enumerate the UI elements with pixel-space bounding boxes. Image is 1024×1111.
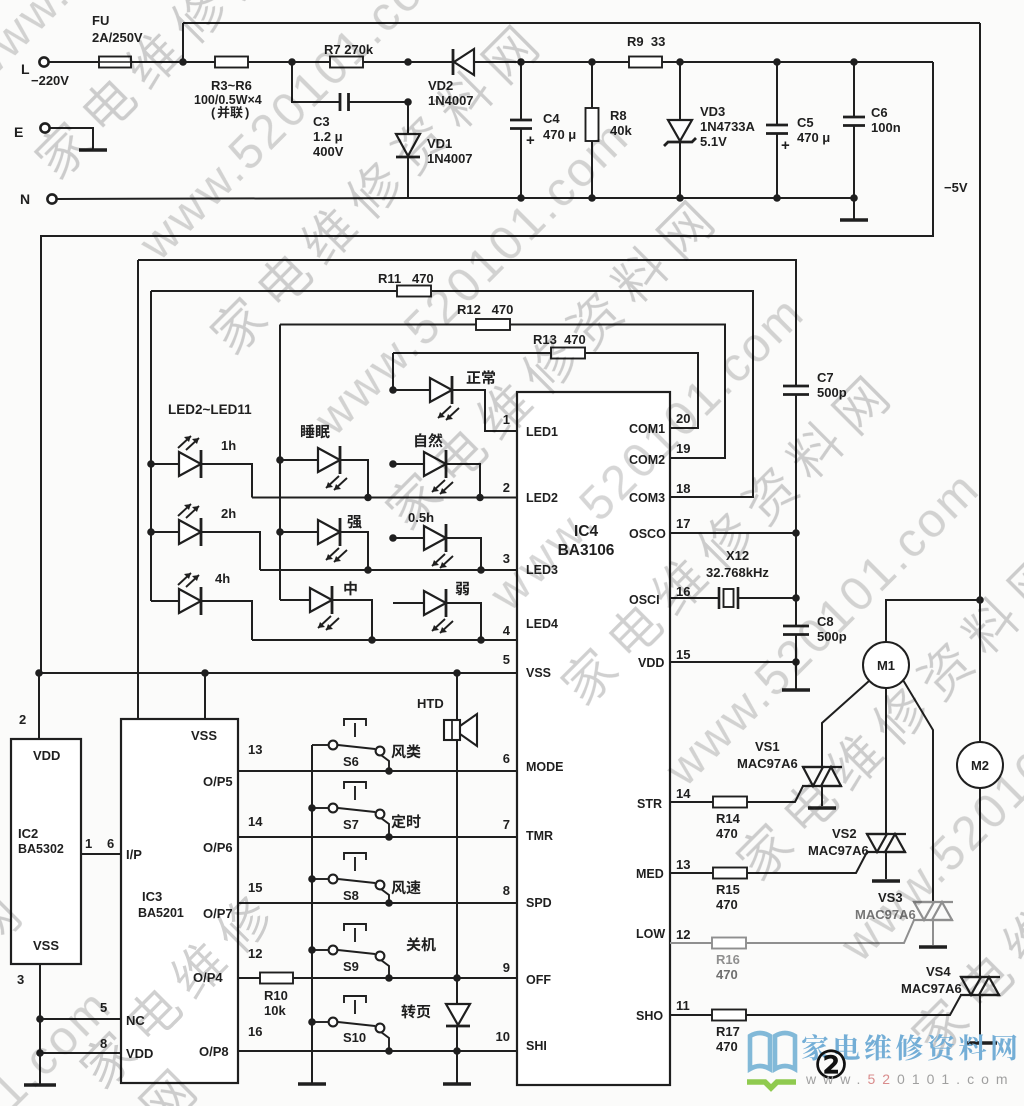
- node VSS left: [35, 669, 43, 677]
- wire 05h cathode: [446, 538, 481, 570]
- wire R7 to VD2: [363, 61, 453, 63]
- wire diode top: [456, 978, 458, 1004]
- wire LED2 row: [252, 497, 517, 499]
- label ruo: [456, 582, 469, 596]
- wire OFF row left: [238, 977, 260, 979]
- node C3-VD1: [404, 98, 412, 106]
- logo green ribbon: [747, 1082, 796, 1088]
- wire OFF row: [293, 977, 517, 979]
- wire VD3 upper: [679, 62, 681, 120]
- wire LED4 row: [252, 639, 517, 641]
- motor M2: [957, 742, 1003, 788]
- node qiang anode: [276, 528, 284, 536]
- label fenglei: [391, 744, 420, 758]
- wire OSCO-OSCI vertical: [795, 533, 797, 598]
- wire R13 left: [393, 352, 551, 354]
- wire M2 top: [979, 600, 981, 742]
- node 1h anode: [147, 460, 155, 468]
- node R8 bottom: [588, 194, 596, 202]
- node MODE: [385, 767, 393, 775]
- ground IC2: [24, 1083, 56, 1086]
- resistor R9: [629, 57, 662, 68]
- wire C3 branch: [292, 62, 340, 102]
- diode VD1 1N4007: [396, 134, 420, 157]
- wire 4h cathode: [201, 601, 252, 640]
- wire ruo cathode: [446, 603, 481, 640]
- resistor R10: [260, 973, 293, 984]
- wire switch bus: [311, 745, 313, 1083]
- wire NC line: [40, 1018, 121, 1020]
- label zhong: [344, 581, 356, 595]
- switch S10: [312, 996, 389, 1051]
- switch S9: [312, 924, 389, 978]
- wire R12 left: [280, 324, 476, 326]
- wire R12 left vert: [279, 325, 281, 601]
- wire C3 to VD1 node: [349, 101, 408, 103]
- label zhengchang: [467, 370, 495, 384]
- wire R16 to VS3 gate: [746, 920, 914, 943]
- wire FU to R3 node: [131, 61, 215, 63]
- wire R11 left vert: [150, 291, 152, 601]
- crystal X12 32.768kHz: [719, 587, 738, 609]
- wire VDD gnd stub: [795, 662, 797, 689]
- resistor R8: [586, 108, 599, 141]
- wire C5 to C6: [777, 61, 854, 63]
- resistor R15: [713, 868, 747, 879]
- wire shuimian cathode: [340, 460, 368, 498]
- label shuimian: [301, 424, 330, 438]
- wire VDD link: [670, 661, 796, 663]
- wire R17 to VS4 gate: [746, 995, 961, 1015]
- wire R8 upper: [591, 62, 593, 108]
- node LED4 a: [368, 636, 376, 644]
- LED zhong: [310, 586, 339, 630]
- ground C6: [840, 218, 868, 221]
- capacitor C5: [766, 125, 788, 134]
- node C4 top: [517, 58, 525, 66]
- terminal L: [39, 57, 48, 66]
- triac VS1 MAC97A6: [802, 767, 842, 786]
- node VD3 top: [676, 58, 684, 66]
- logo site name glyphs: [802, 1034, 1016, 1060]
- node VSS htd: [453, 669, 461, 677]
- wire C6 to -5V corner: [854, 61, 933, 63]
- label fengsu: [391, 880, 420, 894]
- wire ziran anode: [393, 463, 424, 465]
- wire OSCI-C8: [795, 598, 797, 626]
- buzzer HTD: [444, 714, 477, 746]
- wire 4h anode: [151, 600, 179, 602]
- ground switch bus: [298, 1082, 326, 1085]
- terminal VS2: [872, 879, 900, 882]
- wire LED3 row: [260, 569, 517, 571]
- node bus S8: [308, 875, 316, 883]
- wire VDD line: [40, 1052, 121, 1054]
- wire right vertical: [979, 23, 981, 600]
- LED 0.5h: [424, 524, 453, 568]
- wire VD3 lower: [679, 142, 681, 198]
- wire 1h cathode: [201, 464, 252, 498]
- wire STR stub: [670, 801, 713, 803]
- capacitor C7: [783, 386, 809, 395]
- node bus S10: [308, 1018, 316, 1026]
- switch S6: [312, 719, 389, 771]
- resistor R12: [476, 319, 510, 330]
- ground E: [79, 148, 107, 151]
- ground oscillator: [782, 688, 810, 691]
- wire R14 to VS1 gate: [747, 786, 803, 802]
- wire C7 to OSCO: [795, 395, 797, 534]
- wire MED stub: [670, 872, 713, 874]
- wire R9 to VD3: [662, 61, 680, 63]
- node R7-VD2: [404, 58, 412, 66]
- wire C4 upper: [520, 62, 522, 120]
- wire C7 frame: [138, 260, 796, 386]
- wire zhengchang cathode: [452, 390, 517, 431]
- node OSCI: [792, 594, 800, 602]
- node 05h anode: [389, 534, 397, 542]
- wire C4 to R8: [521, 61, 592, 63]
- label zhuanye: [401, 1004, 430, 1018]
- triac VS4 MAC97A6: [960, 977, 1000, 995]
- label dingshi: [391, 814, 420, 828]
- label guanji: [406, 937, 435, 951]
- terminal N: [47, 194, 56, 203]
- LED shuimian: [318, 446, 347, 490]
- wire M1 to VS1: [822, 681, 869, 767]
- node NC join: [36, 1015, 44, 1023]
- wire R15 to VS2 gate: [747, 852, 867, 873]
- svg-text:www.520101.com: www.520101.com: [805, 1071, 1015, 1087]
- LED 1h: [178, 436, 201, 478]
- node OFF htd: [453, 974, 461, 982]
- resistor R14: [713, 797, 747, 808]
- node ziran anode: [389, 460, 397, 468]
- wire zhengchang anode: [393, 389, 430, 391]
- wire frame left lower: [137, 260, 139, 719]
- node TMR: [385, 833, 393, 841]
- node zhengchang anode: [389, 386, 397, 394]
- wire C4 lower: [520, 129, 522, 199]
- wire VD1 to N rail: [407, 157, 409, 198]
- node 2h anode: [147, 528, 155, 536]
- wire top rail: [183, 22, 980, 24]
- wire E to ground: [50, 128, 93, 149]
- ground diode: [443, 1082, 471, 1085]
- wire qiang anode: [280, 531, 318, 533]
- node LED2 b: [476, 494, 484, 502]
- wire SHI row: [238, 1050, 517, 1052]
- wire VS3 bottom: [932, 920, 934, 945]
- LED ruo: [424, 589, 453, 633]
- wire R11 left: [151, 290, 397, 292]
- wire C6 gnd stub: [853, 198, 855, 219]
- wire HTD bottom: [456, 740, 458, 978]
- node VDD15: [792, 658, 800, 666]
- node LED3 a: [364, 566, 372, 574]
- wire node up to top rail: [182, 23, 184, 62]
- node fuse-R3: [179, 58, 187, 66]
- node OSCO: [792, 529, 800, 537]
- wire 2h cathode: [201, 532, 260, 570]
- wire VSS to IC3 top: [204, 673, 206, 719]
- wire R11 to COM3: [431, 291, 753, 497]
- LED qiang: [318, 518, 347, 562]
- wire VS2 bottom: [885, 852, 887, 879]
- node M branch: [976, 596, 984, 604]
- terminal E: [40, 123, 49, 132]
- wire fuse inner: [99, 61, 131, 63]
- wire node to VD1: [407, 102, 409, 134]
- motor M1: [863, 642, 909, 688]
- resistor R16: [712, 938, 746, 949]
- wire zhong anode: [280, 599, 310, 601]
- node OFF s9: [385, 974, 393, 982]
- triac VS2 MAC97A6: [866, 834, 906, 852]
- LED ziran: [424, 450, 453, 494]
- wire IC2 pin1 to IC3: [81, 853, 121, 855]
- IC U-IC3 BA5201 box: [121, 719, 238, 1083]
- wire R8 to R9: [592, 61, 629, 63]
- logo book icon: [750, 1033, 795, 1069]
- capacitor C6: [843, 117, 865, 126]
- capacitor C4: [510, 120, 532, 129]
- LED 2h: [178, 504, 201, 546]
- wire C6 lower: [853, 126, 855, 199]
- node VD3 bottom: [676, 194, 684, 202]
- node SHI diode: [453, 1047, 461, 1055]
- terminal VS3: [919, 945, 947, 948]
- wire -5V down: [41, 62, 933, 673]
- wire N rail: [57, 198, 854, 199]
- node SPD: [385, 899, 393, 907]
- switch S8: [312, 853, 389, 903]
- node SHI s10: [385, 1047, 393, 1055]
- wire R13 to COM1: [585, 353, 698, 428]
- node C5 top: [773, 58, 781, 66]
- wire VS4 bottom: [979, 995, 981, 1042]
- wire M1 to VS3: [903, 680, 933, 902]
- node C3 branch: [288, 58, 296, 66]
- IC U-IC2 BA5302 box: [11, 739, 81, 964]
- wire C5 lower: [776, 134, 778, 199]
- wire crystal to node: [738, 597, 796, 599]
- wire VD2 to C4: [474, 61, 521, 63]
- wire M2 to VS4: [979, 788, 981, 977]
- node C4 bottom: [517, 194, 525, 202]
- wire HTD top: [456, 673, 458, 720]
- wire M1 to VS2: [885, 688, 887, 834]
- wire 05h anode: [393, 537, 424, 539]
- wire MODE row: [238, 770, 517, 772]
- label ziran: [415, 433, 442, 447]
- wire 1h anode: [151, 463, 179, 465]
- node C6 top: [850, 58, 858, 66]
- node bus S7: [308, 804, 316, 812]
- capacitor C3: [340, 93, 349, 111]
- triac VS3 MAC97A6: [913, 902, 953, 920]
- wire R13 left vert: [392, 353, 394, 390]
- resistor R17: [712, 1010, 746, 1021]
- node VSS mid: [201, 669, 209, 677]
- resistor R3~R6: [215, 57, 248, 68]
- node C6 bottom: [850, 194, 858, 202]
- resistor R11: [397, 286, 431, 297]
- wire shuimian anode: [280, 459, 318, 461]
- node LED2 a: [364, 494, 372, 502]
- wire zhong cathode: [332, 600, 372, 640]
- wire VSS rail: [39, 672, 517, 674]
- LED zhengchang: [430, 376, 459, 420]
- wire SPD row: [238, 902, 517, 904]
- wire VSS to IC2: [38, 673, 40, 739]
- diode page-turn: [446, 1004, 470, 1026]
- wire SHO stub: [670, 1014, 712, 1016]
- resistor R13: [551, 348, 585, 359]
- wire VS1 bottom: [821, 786, 823, 806]
- wire IC2 pin3 down: [39, 964, 41, 1084]
- node VDD join: [36, 1049, 44, 1057]
- label qiang: [347, 515, 361, 528]
- resistor R7: [330, 57, 363, 68]
- diode VD2 1N4007: [453, 49, 474, 75]
- wire L to FU: [49, 61, 99, 63]
- node LED3 b: [477, 566, 485, 574]
- wire ziran cathode: [446, 464, 480, 498]
- wire LOW stub: [670, 942, 712, 944]
- wire R12 to COM2: [510, 325, 725, 459]
- wire 2h anode: [151, 531, 179, 533]
- wire TMR row: [238, 836, 517, 838]
- terminal VS4: [965, 1041, 997, 1044]
- wire VD3 to C5: [680, 61, 777, 63]
- wire OSCO link: [670, 532, 796, 534]
- wire ruo anode: [393, 602, 424, 604]
- fuse FU: [99, 57, 131, 68]
- wire OSCI to crystal: [670, 597, 719, 599]
- wire qiang cathode: [340, 532, 368, 570]
- capacitor C8: [783, 626, 809, 635]
- label binglian: [218, 106, 243, 118]
- zener diode VD3 1N4733A: [664, 120, 696, 146]
- wire C6 upper: [853, 62, 855, 117]
- LED 4h: [178, 573, 201, 615]
- node bus S9: [308, 946, 316, 954]
- wire C8-VDD: [795, 635, 797, 663]
- node C5 bottom: [773, 194, 781, 202]
- wire C5 upper: [776, 62, 778, 125]
- wire frame to IC3 top: [137, 673, 139, 719]
- wire R8 lower: [591, 141, 593, 198]
- switch S7: [312, 782, 389, 837]
- IC U-IC4 BA3106 box: [517, 392, 670, 1085]
- wire diode bottom: [456, 1026, 458, 1083]
- terminal VS1: [808, 806, 836, 809]
- node R8 top: [588, 58, 596, 66]
- node shuimian anode: [276, 456, 284, 464]
- node LED4 b: [477, 636, 485, 644]
- wire M1 branch: [886, 600, 980, 642]
- wire R3 to node: [248, 61, 330, 63]
